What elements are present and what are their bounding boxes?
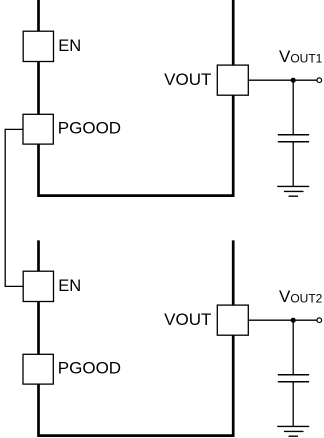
svg-text:VOUT2: VOUT2 [279,287,323,306]
svg-text:PGOOD: PGOOD [58,118,121,137]
pin EN (U1) [23,31,53,61]
svg-text:PGOOD: PGOOD [58,358,121,377]
regulator U1 body (partial outline) [39,0,234,196]
wire C2 to ground [292,382,294,427]
svg-text:VOUT1: VOUT1 [279,47,323,66]
pin EN (U2) [23,271,53,301]
wire VOUT1 output [248,79,316,81]
wire PGOOD1 to EN2 [5,129,23,286]
capacitor C2 [278,375,309,382]
wire junction to C2 [292,320,294,375]
regulator U2 body (partial outline) [39,240,234,435]
svg-text:EN: EN [58,37,81,55]
pin PGOOD (U1) [23,114,53,144]
wire VOUT2 output [248,319,316,321]
ground (output 2) [277,426,309,436]
pin VOUT (U2) [217,305,248,335]
svg-text:EN: EN [58,277,81,295]
terminal VOUT1 (open circle) [317,78,322,83]
terminal VOUT2 (open circle) [317,318,322,323]
junction dot node VOUT2 [291,318,296,323]
ground (output 1) [277,186,309,196]
capacitor C1 [278,135,309,142]
pin PGOOD (U2) [23,354,53,384]
pin VOUT (U1) [217,65,248,95]
svg-text:VOUT: VOUT [164,70,211,89]
junction dot node VOUT1 [291,78,296,83]
svg-text:VOUT: VOUT [164,310,211,329]
wire junction to C1 [292,80,294,135]
wire C1 to ground [292,142,294,187]
